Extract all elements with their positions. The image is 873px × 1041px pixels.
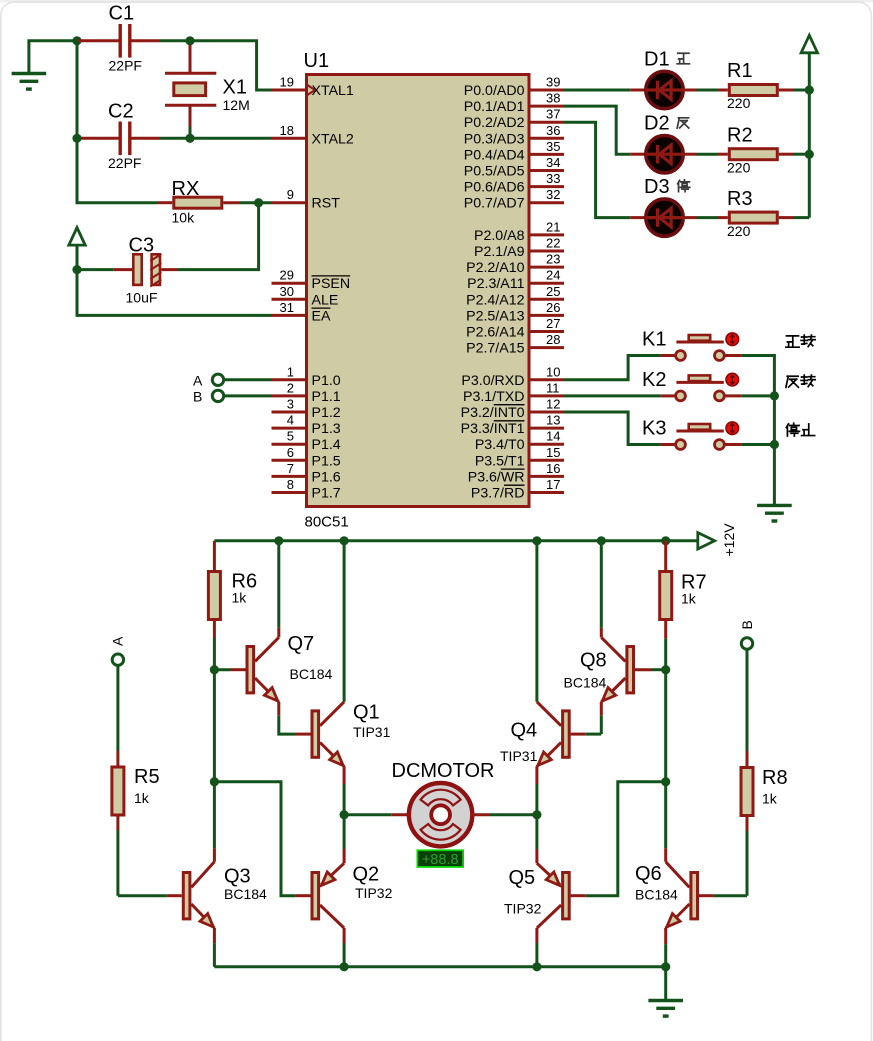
svg-text:1k: 1k: [762, 791, 778, 807]
svg-text:10uF: 10uF: [126, 290, 158, 306]
svg-text:R5: R5: [134, 766, 160, 788]
push button K3: [661, 443, 676, 446]
svg-text:P2.4/A12: P2.4/A12: [466, 292, 524, 308]
svg-text:P2.0/A8: P2.0/A8: [474, 228, 525, 244]
svg-text:12M: 12M: [223, 97, 250, 113]
junction: [661, 777, 670, 786]
wire keys to ground rail: [742, 356, 775, 506]
svg-text:27: 27: [546, 316, 560, 331]
svg-text:P1.6: P1.6: [312, 469, 341, 485]
junction: [532, 810, 541, 819]
junction: [661, 665, 670, 674]
LED D2: [630, 153, 646, 156]
wire R7 to base column: [664, 638, 667, 669]
svg-text:2: 2: [287, 380, 294, 395]
junction: [72, 134, 81, 143]
junction: [661, 962, 670, 971]
svg-text:Q2: Q2: [353, 864, 380, 886]
svg-text:37: 37: [546, 107, 560, 122]
svg-text:P0.0/AD0: P0.0/AD0: [464, 83, 525, 99]
svg-text:P2.7/A15: P2.7/A15: [466, 341, 524, 357]
transistor Q3 BC184: [118, 894, 167, 897]
wire B to R8: [746, 650, 749, 751]
U1 left pin stubs: [272, 89, 306, 92]
svg-text:25: 25: [546, 284, 560, 299]
wire pin10 to K1: [564, 356, 661, 380]
svg-text:B: B: [739, 620, 755, 629]
svg-text:BC184: BC184: [564, 675, 607, 691]
wire Q8 collector to rail: [600, 541, 603, 628]
wire B to pin2: [225, 394, 272, 397]
junction: [340, 962, 349, 971]
wire R8 to Q6 base: [746, 831, 749, 896]
wire resistor to +5V rail: [794, 89, 810, 92]
svg-text:Q5: Q5: [509, 867, 536, 889]
wire base column down: [213, 670, 216, 782]
junction: [805, 85, 814, 94]
svg-text:1k: 1k: [232, 590, 248, 606]
resistor RX 10k: [157, 201, 172, 204]
svg-text:P2.1/A9: P2.1/A9: [474, 244, 525, 260]
junction: [210, 665, 219, 674]
label 正转: [786, 336, 799, 347]
junction: [72, 265, 81, 274]
junction: [661, 536, 670, 545]
svg-text:26: 26: [546, 300, 560, 315]
capacitor C3 10uF (electrolytic): [161, 268, 178, 271]
svg-text:XTAL2: XTAL2: [312, 131, 354, 147]
svg-text:16: 16: [546, 461, 560, 476]
power symbol +12V: [698, 533, 715, 549]
wire Q7 emitter to Q1 base: [277, 702, 280, 716]
svg-text:BC184: BC184: [635, 887, 678, 903]
svg-text:29: 29: [280, 268, 294, 283]
wire Q3 emitter to bottom rail: [213, 943, 216, 967]
junction: [185, 36, 194, 45]
wire Q1 collector to rail: [343, 541, 346, 702]
wire D2 to resistor: [697, 153, 718, 156]
svg-text:EA: EA: [312, 308, 331, 324]
motor DCMOTOR: [344, 813, 391, 816]
svg-text:ALE: ALE: [312, 292, 339, 308]
svg-text:12: 12: [546, 397, 560, 412]
svg-text:22PF: 22PF: [108, 155, 141, 171]
svg-text:P1.2: P1.2: [312, 405, 341, 421]
wire Q4 collector to rail: [535, 541, 538, 702]
svg-text:34: 34: [546, 155, 560, 170]
wire RX to pin9: [240, 201, 272, 204]
svg-text:P1.0: P1.0: [312, 373, 341, 389]
svg-text:TIP32: TIP32: [355, 885, 393, 901]
svg-text:K3: K3: [642, 418, 666, 440]
wire R6 to base column: [213, 638, 216, 670]
wire Q1 emitter to motor node: [343, 784, 346, 815]
push button K1: [661, 354, 676, 357]
svg-text:35: 35: [546, 139, 560, 154]
svg-text:A: A: [193, 372, 203, 388]
wire A to R5: [116, 667, 119, 751]
node B terminal (bottom): [741, 638, 752, 649]
junction: [770, 391, 779, 400]
wire C1 to crystal node: [160, 39, 191, 42]
svg-text:K2: K2: [642, 369, 666, 391]
svg-text:P3.1/TXD: P3.1/TXD: [463, 389, 525, 405]
wire left vertical to RST row: [77, 138, 157, 202]
transistor Q6 BC184: [714, 894, 747, 897]
svg-text:RX: RX: [172, 178, 200, 200]
wire to pin31 EA: [77, 270, 272, 316]
svg-text:6: 6: [287, 445, 294, 460]
svg-text:8: 8: [287, 477, 294, 492]
svg-text:P3.7/RD: P3.7/RD: [471, 486, 525, 502]
wire RST node down to C3: [178, 203, 259, 270]
svg-text:13: 13: [546, 413, 560, 428]
wire cross right (base of Q5): [586, 782, 666, 896]
svg-text:7: 7: [287, 461, 294, 476]
wire bottom rail: [214, 965, 665, 968]
transistor Q1 TIP31: [296, 733, 311, 736]
svg-text:BC184: BC184: [224, 886, 267, 902]
svg-text:Q1: Q1: [353, 702, 380, 724]
wire pin37 to D3: [564, 122, 630, 217]
svg-text:24: 24: [546, 268, 560, 283]
svg-text:R1: R1: [727, 60, 753, 82]
push button K2: [661, 394, 676, 397]
svg-text:R8: R8: [762, 767, 788, 789]
wire +12V rail: [214, 539, 697, 542]
wire D3 to resistor: [697, 216, 718, 219]
wire Q6 collector to cross node: [664, 782, 667, 849]
wire Q5 collector to bottom rail: [535, 943, 538, 967]
wire resistor to +5V rail: [794, 153, 810, 156]
svg-text:3: 3: [287, 397, 294, 412]
svg-text:TIP32: TIP32: [504, 901, 542, 917]
wire C2 to pin18: [160, 137, 272, 140]
svg-text:R2: R2: [727, 125, 753, 147]
junction: [185, 134, 194, 143]
junction: [532, 536, 541, 545]
svg-text:5: 5: [287, 429, 294, 444]
svg-text:C3: C3: [129, 235, 155, 257]
transistor Q7 BC184: [214, 668, 230, 671]
junction: [254, 198, 263, 207]
svg-text:TIP31: TIP31: [500, 748, 538, 764]
svg-text:38: 38: [546, 91, 560, 106]
svg-text:14: 14: [546, 429, 560, 444]
wire base column down (right): [664, 670, 667, 782]
resistor R7 1k: [664, 541, 667, 570]
ground (keys): [757, 504, 792, 507]
junction: [805, 150, 814, 159]
svg-text:B: B: [193, 389, 202, 405]
transistor Q8 BC184: [651, 668, 666, 671]
svg-text:Q3: Q3: [224, 866, 251, 888]
power symbol (left): [69, 228, 85, 246]
svg-text:P0.7/AD7: P0.7/AD7: [464, 196, 525, 212]
wire Q7 collector to rail: [277, 541, 280, 628]
junction: [532, 962, 541, 971]
svg-text:P3.5/T1: P3.5/T1: [475, 453, 525, 469]
svg-text:XTAL1: XTAL1: [312, 83, 354, 99]
svg-text:Q4: Q4: [511, 720, 538, 742]
junction: [770, 440, 779, 449]
svg-text:X1: X1: [223, 77, 247, 99]
svg-text:P3.0/RXD: P3.0/RXD: [461, 373, 524, 389]
svg-text:P2.5/A13: P2.5/A13: [466, 308, 524, 324]
wire Q2 collector to bottom rail: [343, 943, 346, 967]
wire D1 to resistor: [697, 89, 718, 92]
svg-text:22: 22: [546, 236, 560, 251]
svg-text:31: 31: [280, 300, 294, 315]
svg-text:18: 18: [280, 123, 294, 138]
wire Q3 collector to cross node: [213, 782, 216, 849]
svg-text:39: 39: [546, 75, 560, 90]
wire C3 to power node: [77, 268, 114, 271]
transistor Q5 TIP32: [563, 873, 570, 919]
junction: [72, 36, 81, 45]
resistor R8 1k: [746, 751, 749, 766]
ground: [12, 72, 47, 75]
junction: [340, 536, 349, 545]
svg-text:P0.4/AD4: P0.4/AD4: [464, 147, 525, 163]
label 反转: [786, 376, 798, 387]
label 停止: [786, 423, 799, 436]
junction: [210, 777, 219, 786]
svg-text:10k: 10k: [172, 210, 196, 226]
svg-text:220: 220: [727, 223, 751, 239]
svg-text:P0.1/AD1: P0.1/AD1: [464, 99, 525, 115]
svg-text:1: 1: [287, 364, 294, 379]
svg-text:19: 19: [280, 75, 294, 90]
wire +5V rail: [808, 53, 811, 218]
svg-text:P1.5: P1.5: [312, 453, 341, 469]
wire crystal to pin18 row: [189, 127, 192, 139]
svg-text:Q8: Q8: [580, 650, 607, 672]
svg-text:C2: C2: [108, 101, 134, 123]
capacitor C2: [77, 137, 120, 140]
LED D3: [630, 216, 646, 219]
svg-text:DCMOTOR: DCMOTOR: [392, 760, 495, 782]
svg-text:D1: D1: [644, 48, 670, 70]
svg-text:P1.7: P1.7: [312, 486, 341, 502]
svg-text:P0.3/AD3: P0.3/AD3: [464, 131, 525, 147]
U1 right pin stubs: [531, 89, 565, 92]
resistor R2 220: [717, 153, 728, 156]
svg-text:36: 36: [546, 123, 560, 138]
svg-text:22PF: 22PF: [109, 58, 142, 74]
svg-text:P0.2/AD2: P0.2/AD2: [464, 115, 525, 131]
wire pin38 to D2: [564, 106, 630, 154]
svg-text:1k: 1k: [134, 790, 150, 806]
svg-text:P3.6/WR: P3.6/WR: [468, 469, 525, 485]
svg-text:Q7: Q7: [288, 633, 315, 655]
resistor R3 220: [717, 216, 728, 219]
svg-text:33: 33: [546, 171, 560, 186]
svg-text:P2.3/A11: P2.3/A11: [467, 276, 524, 292]
ground (H-bridge): [664, 967, 667, 1001]
svg-text:23: 23: [546, 252, 560, 267]
svg-text:P1.1: P1.1: [312, 389, 341, 405]
crystal X1: [189, 45, 192, 73]
wire resistor to +5V rail: [794, 216, 810, 219]
svg-text:17: 17: [546, 477, 560, 492]
junction: [340, 810, 349, 819]
junction: [597, 536, 606, 545]
wire left vertical: [76, 41, 79, 139]
svg-text:P2.2/A10: P2.2/A10: [466, 260, 524, 276]
junction: [274, 536, 283, 545]
svg-text:R3: R3: [727, 188, 753, 210]
motor display +88.8: [417, 850, 463, 867]
wire Q4 emitter to motor node: [535, 784, 538, 815]
capacitor C1: [77, 39, 120, 42]
wire Q8 emitter to Q4 base: [600, 702, 603, 716]
svg-text:BC184: BC184: [290, 666, 333, 682]
svg-text:P3.3/INT1: P3.3/INT1: [461, 421, 525, 437]
svg-text:11: 11: [546, 380, 560, 395]
wire pin39 to D1: [564, 89, 630, 92]
svg-text:D3: D3: [644, 176, 670, 198]
svg-text:P0.5/AD5: P0.5/AD5: [464, 164, 525, 180]
node B terminal: [212, 390, 223, 401]
node A terminal (bottom): [112, 654, 123, 665]
svg-text:D2: D2: [644, 113, 670, 135]
svg-text:80C51: 80C51: [305, 514, 349, 531]
svg-text:P0.6/AD6: P0.6/AD6: [464, 180, 525, 196]
svg-text:P2.6/A14: P2.6/A14: [466, 325, 524, 341]
svg-text:28: 28: [546, 332, 560, 347]
U1 XTAL1 clock mark: [307, 85, 316, 96]
svg-text:Q6: Q6: [635, 863, 662, 885]
resistor R6 1k: [213, 541, 216, 570]
transistor Q4 TIP31: [586, 733, 602, 736]
wire Q6 emitter to bottom rail: [664, 944, 667, 967]
svg-text:+88.8: +88.8: [422, 852, 459, 868]
svg-text:K1: K1: [642, 329, 666, 351]
svg-text:220: 220: [727, 160, 751, 176]
wire gnd to C1 node: [29, 41, 77, 74]
wire to pin19: [190, 41, 272, 90]
svg-text:220: 220: [727, 95, 751, 111]
svg-text:1k: 1k: [681, 591, 697, 607]
svg-text:RST: RST: [312, 196, 341, 212]
svg-text:P3.4/T0: P3.4/T0: [475, 437, 525, 453]
resistor R5 1k: [116, 751, 119, 766]
svg-text:10: 10: [546, 364, 560, 379]
svg-text:PSEN: PSEN: [312, 276, 351, 292]
svg-text:TIP31: TIP31: [353, 724, 391, 740]
wire cross left (base of Q2): [214, 782, 295, 896]
wire pin12 to K3: [564, 412, 661, 445]
svg-text:21: 21: [546, 219, 560, 234]
transistor Q2 TIP32: [295, 894, 310, 897]
wire R5 to Q3 base: [116, 831, 119, 896]
resistor R1 220: [717, 89, 728, 92]
svg-text:C1: C1: [109, 3, 135, 25]
svg-text:32: 32: [546, 187, 560, 202]
svg-text:A: A: [110, 636, 126, 646]
svg-text:4: 4: [287, 413, 294, 428]
svg-text:P3.2/INT0: P3.2/INT0: [461, 405, 525, 421]
svg-text:P1.4: P1.4: [312, 437, 341, 453]
power symbol +5V (top right): [801, 35, 817, 53]
svg-text:9: 9: [287, 187, 294, 202]
svg-text:15: 15: [546, 445, 560, 460]
svg-text:30: 30: [280, 284, 294, 299]
wire A to pin1: [225, 378, 272, 381]
LED D1: [630, 89, 646, 92]
svg-text:U1: U1: [304, 50, 330, 72]
svg-text:+12V: +12V: [721, 523, 737, 557]
node A terminal: [212, 374, 223, 385]
wire pin11 to K2: [564, 394, 661, 397]
svg-text:P1.3: P1.3: [312, 421, 341, 437]
